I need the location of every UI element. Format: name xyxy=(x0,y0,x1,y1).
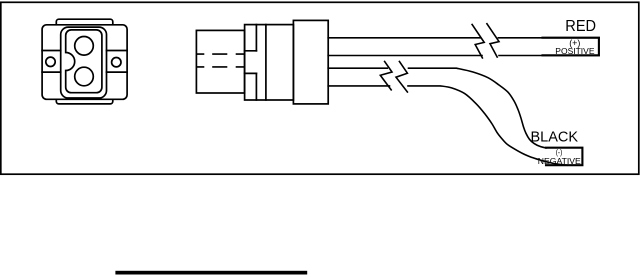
svg-text:RED: RED xyxy=(565,18,596,35)
wire W2 black: lower edge before break xyxy=(328,85,389,87)
connector J1 side view: mating end xyxy=(196,30,244,93)
wire W2 black: terminal label box xyxy=(546,148,582,166)
bottom title bar line xyxy=(115,271,307,275)
connector J1 front view: left flange band lines xyxy=(42,51,61,73)
connector J1 front view: outer body xyxy=(42,25,127,100)
connector J1 front view: bottom mounting tab xyxy=(56,97,113,104)
wire W1 red: break symbol right zigzag xyxy=(487,24,499,57)
connector J1 front view: inner insert outline with keying notch xyxy=(66,30,102,93)
wire W2 black: break symbol left zigzag xyxy=(380,62,392,90)
wire W2 black: break symbol right zigzag xyxy=(396,62,407,93)
wire W1 red: upper edge after break xyxy=(498,37,599,39)
connector J1 front view: pin cavity 2 (bottom) xyxy=(75,67,94,86)
connector J1 front view: right flange band lines xyxy=(107,51,128,73)
wire W2 black: upper edge before break xyxy=(328,67,387,69)
connector J1 side view: center housing xyxy=(245,25,294,100)
connector J1 side view: housing step line xyxy=(265,25,267,100)
wire W1 red: lower edge before break xyxy=(328,55,482,57)
connector J1 front view: top mounting tab xyxy=(56,19,113,28)
wire W1 red: upper edge before break xyxy=(328,37,480,39)
connector J1 front view: pin cavity 1 (top) xyxy=(75,37,94,56)
wire W1 red: lower edge after break xyxy=(499,55,599,57)
connector J1 side view: latch slot verticals xyxy=(255,25,257,100)
connector J1 front view: left mounting hole xyxy=(46,57,55,66)
connector J1 side view: latch slot horizontals xyxy=(245,51,257,74)
svg-text:NEGATIVE: NEGATIVE xyxy=(538,156,581,166)
connector J1 side view: hidden pin line upper (dashed) xyxy=(197,53,244,55)
connector J1 front view: right mounting hole xyxy=(112,58,121,67)
wire W2 black: lower edge curve to terminal xyxy=(408,86,567,165)
connector J1 front view: plug shroud outline xyxy=(61,27,107,98)
svg-text:POSITIVE: POSITIVE xyxy=(555,46,595,56)
wire W1 red: terminal label box xyxy=(543,38,599,56)
svg-text:BLACK: BLACK xyxy=(531,129,579,145)
wire W2 black: upper edge curve to terminal xyxy=(409,68,547,148)
connector J1 side view: hidden pin line lower (dashed) xyxy=(197,66,244,68)
drawing border frame xyxy=(1,2,639,174)
wire W1 red: break symbol left zigzag xyxy=(472,25,484,58)
connector J1 side view: rear boot xyxy=(293,20,328,104)
